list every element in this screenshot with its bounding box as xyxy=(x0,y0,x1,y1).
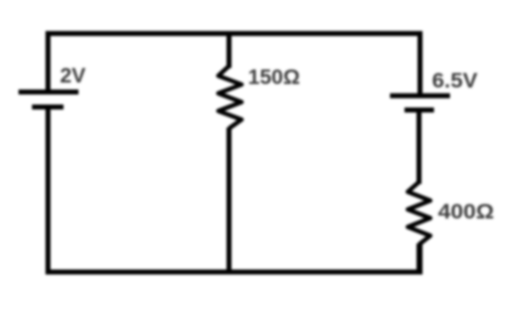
svg-text:400Ω: 400Ω xyxy=(438,201,494,224)
svg-text:2V: 2V xyxy=(60,64,86,87)
svg-text:150Ω: 150Ω xyxy=(248,66,300,89)
svg-text:6.5V: 6.5V xyxy=(432,69,478,92)
